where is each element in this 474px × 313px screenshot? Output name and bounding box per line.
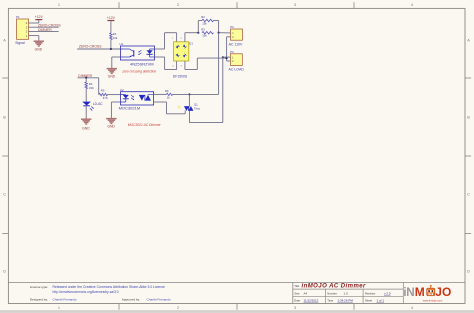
wire neutral to P2/P3 column [197,57,226,59]
wire U1 collector-side to bridge+ [155,48,165,50]
wire neutral riser column [226,37,228,61]
svg-text:AC LOAD: AC LOAD [229,68,245,72]
svg-text:MOC3021M: MOC3021M [119,106,141,111]
wire MT1 to triac [189,111,191,123]
zone tick marks [118,2,120,8]
svg-text:ZERO-CROSS: ZERO-CROSS [79,45,102,49]
svg-text:4: 4 [411,306,413,310]
junction R6/MT2/hot [188,93,190,95]
svg-text:D1: D1 [189,42,193,46]
svg-text:Approved by:: Approved by: [122,298,140,302]
wire gate to triac [184,111,186,114]
ground at P1 [34,40,44,42]
wire neutral riser [196,58,198,69]
U2 light arrows [131,95,134,97]
svg-text:License type:: License type: [30,285,48,289]
off-grid marker [178,106,181,109]
svg-text:Time: Time [327,299,333,303]
wire R2 loop right [218,21,220,33]
wire R4 to LED [85,89,87,102]
U1 LED symbol [150,48,155,50]
power +12V at R1 [107,20,114,22]
wire R2 right stub [214,20,219,22]
wire U2 cathode to ground [111,101,120,103]
wire riser U1 GND [111,57,113,68]
svg-text:LD-AC: LD-AC [93,102,104,106]
svg-text:1: 1 [58,3,60,7]
wire R2 left stub [198,20,202,22]
wire P3 pin2 to neutral [227,60,231,62]
resistor R1 [110,33,113,40]
svg-text:Charith Fernando: Charith Fernando [53,298,77,302]
bridge diode BL [176,53,180,57]
svg-text:3: 3 [294,3,296,7]
svg-text:Title: Title [294,284,299,288]
wire MT2 to triac [188,94,190,106]
svg-text:zero crossing detection: zero crossing detection [121,70,156,74]
svg-text:P2: P2 [230,25,234,29]
bottom gray strip [0,311,474,313]
triac triangle right [189,106,193,110]
ground at U2 [106,118,116,120]
wire gate drop [166,102,168,114]
svg-text:1 of 1: 1 of 1 [377,299,385,303]
svg-text:Released under the Creative Co: Released under the Creative Commons Attr… [53,285,165,289]
svg-text:1: 1 [58,306,60,310]
wire bridge pin2 to AC line [184,33,186,42]
wire AC hot riser [218,33,220,95]
LED arrow 2 [90,108,92,110]
ground at U1 [107,68,117,70]
svg-text:P3: P3 [230,50,234,54]
bridge diode TR [183,45,187,49]
U2 triac symbol [139,95,145,101]
svg-text:JO: JO [435,285,451,299]
connector P3 [230,54,242,66]
svg-text:+12V: +12V [35,15,44,19]
wire AC hot to R6 node [189,93,218,95]
connector P1 [17,19,29,39]
svg-text:Designed by:: Designed by: [30,298,48,302]
svg-text:Revision: Revision [365,291,376,295]
wire gate run [167,113,186,115]
svg-text:U1: U1 [120,42,124,46]
wire bridge pin4 rise [176,61,178,70]
LED LD-AC [82,102,91,106]
wire R6 to hot node [173,93,190,95]
resistor R3 [202,31,214,34]
wire riser down [164,57,166,70]
bridge diode BR [183,54,187,58]
svg-text:Number: Number [327,291,337,295]
wire riser GND P1 [38,36,40,41]
junction R1/ZERO-CROSS [110,48,112,50]
svg-text:15k: 15k [202,34,207,38]
opto-coupler U2 MOC3021 [121,92,154,105]
resistor R2 [202,19,214,22]
wire R5 to U2 [108,94,121,96]
wire P3 pin1 to triac MT1 [223,56,231,58]
svg-text:R2: R2 [201,15,205,19]
svg-text:2: 2 [177,306,179,310]
power +12V at P1 [35,19,42,21]
svg-text:DF1500S: DF1500S [173,74,188,78]
svg-text:4: 4 [411,3,413,7]
wire U1 to bridge- [155,56,165,58]
junction R2R3 left [197,32,199,34]
svg-text:2: 2 [177,3,179,7]
svg-text:Signal: Signal [15,41,25,45]
svg-text:A4: A4 [304,291,308,295]
svg-text:470: 470 [103,96,108,100]
wire to P2 pin1 [219,32,231,34]
svg-text:U2: U2 [120,88,124,92]
op-to-coupler U1 4N25 [120,46,154,60]
wire U1 emitter to ground [112,56,121,58]
svg-text:P1: P1 [16,15,20,19]
wire DIMMER drop to R5 [98,78,100,95]
resistor R6 [166,93,172,95]
svg-text:M: M [415,285,425,299]
wire to bridge pin4 [165,69,177,71]
svg-text:GND: GND [35,48,43,52]
bridge diode TL [176,45,180,49]
junction neutral [226,57,228,59]
wire +12V to R1 [110,21,112,34]
wire P1 pin1 to ground [29,35,39,37]
wire LED to ground [85,106,87,119]
wire to R4 [85,78,87,82]
wire riser U2 GND [110,102,112,118]
svg-text:10k: 10k [113,36,118,40]
wire bridge pin3 drop [184,61,186,70]
ground at LED [81,118,91,120]
wire MT1 bottom run [190,122,223,124]
svg-text:R3: R3 [201,27,205,31]
resistor R4 [85,82,88,89]
svg-text:GND: GND [107,125,115,129]
wire R1 to ZERO-CROSS node [110,40,112,49]
svg-text:Date: Date [294,299,300,303]
wire P1 pin2 DIMMER stub [29,30,59,32]
svg-text:R5: R5 [101,89,105,93]
bridge rectifier D1 DF1500S [174,42,189,61]
title block lines [8,281,465,283]
wire riser +12V P1 [38,20,40,23]
svg-text:iN: iN [403,286,414,299]
wire AC line to R2R3 [185,32,198,34]
svg-text:3: 3 [294,306,296,310]
svg-text:4N25SRZVM: 4N25SRZVM [130,62,154,67]
svg-text:GND: GND [108,75,116,79]
U2 LED symbol [121,94,126,96]
wire DIMMER [78,77,99,79]
svg-text:v 2.0: v 2.0 [384,291,391,295]
svg-text:DIMMER: DIMMER [38,28,52,32]
svg-text:330: 330 [89,86,94,90]
svg-text:Size: Size [294,291,300,295]
wire to bridge pin1 [165,32,177,34]
svg-text:Charith Fernando: Charith Fernando [147,298,171,302]
svg-text:Triac: Triac [194,107,201,111]
wire to neutral riser [185,69,197,71]
wire riser to bridge top-left [164,33,166,49]
wire bridge pin1 drop [176,33,178,42]
svg-text:http://creativecommons.org/lic: http://creativecommons.org/licenses/by-s… [53,290,119,294]
wire U2 pin6 to R6 [154,93,167,95]
wire R2 loop left [197,21,199,33]
U1 phototransistor symbol [133,50,135,56]
svg-text:11/12/2012: 11/12/2012 [304,299,319,303]
connector P2 [231,29,243,40]
wire ZERO-CROSS to U1 [77,48,120,50]
U1 light arrows [139,50,142,52]
wire U2 pin4 gate [154,101,167,103]
wire P2 pin2 neutral [227,36,231,38]
LED arrow 1 [91,107,93,109]
wire P1 pin3 ZERO-CROSS stub [29,26,59,28]
svg-text:AC 110V: AC 110V [229,42,243,46]
svg-text:Sheet: Sheet [365,299,372,303]
svg-text:GND: GND [82,126,90,130]
svg-text:15k: 15k [202,22,207,26]
resistor R5 [99,93,108,96]
svg-text:MOC3021 AC Dimmer: MOC3021 AC Dimmer [128,123,162,127]
junction DIMMER/R4 [85,77,87,79]
svg-text:R6: R6 [165,89,169,93]
svg-text:www.inmojo.com: www.inmojo.com [423,298,442,302]
junction R2R3 right [218,32,220,34]
svg-text:1:34:26 PM: 1:34:26 PM [338,299,354,303]
svg-text:1.0: 1.0 [344,291,349,295]
triac triangle left [184,106,188,110]
wire P1 pin4 to +12V [29,22,39,24]
wire MT1 riser [222,57,224,123]
svg-text:inMOJO AC Dimmer: inMOJO AC Dimmer [302,284,367,290]
svg-text:+12V: +12V [107,16,116,20]
